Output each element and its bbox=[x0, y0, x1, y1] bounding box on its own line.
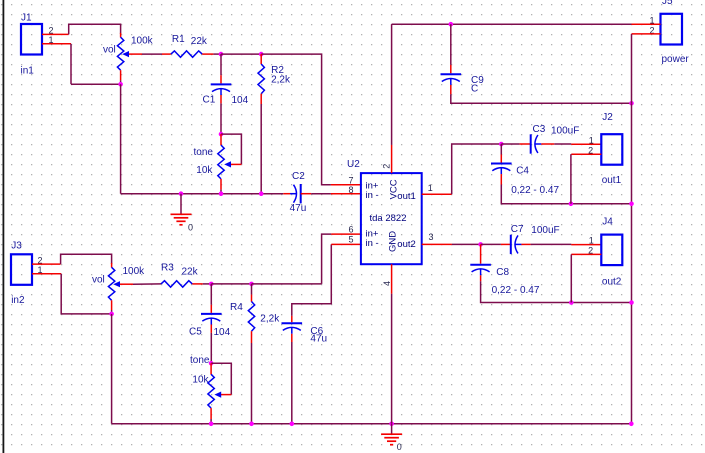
wire ground2 stem bbox=[391, 424, 393, 434]
connector J1 bbox=[21, 24, 42, 55]
svg-text:vol: vol bbox=[92, 275, 105, 286]
svg-text:tone: tone bbox=[190, 355, 210, 366]
wire R1 to node A bbox=[213, 53, 221, 55]
capacitor C4 bbox=[491, 163, 512, 165]
capacitor C8 bbox=[470, 264, 491, 266]
connector J3 bbox=[11, 254, 32, 284]
svg-text:100uF: 100uF bbox=[551, 126, 579, 137]
capacitor C5 bottom stub bbox=[210, 325, 212, 333]
capacitor C7 left stub bbox=[501, 243, 511, 245]
ground symbol 0 (channel 1) bbox=[171, 213, 192, 215]
svg-text:C4: C4 bbox=[516, 166, 529, 177]
J3 pin 2 stub bbox=[32, 263, 61, 265]
resistor R4 bottom stub bbox=[251, 331, 253, 343]
node junction vol1 bottom bbox=[118, 82, 123, 87]
svg-text:C5: C5 bbox=[189, 327, 202, 338]
potentiometer tone1 bbox=[218, 145, 224, 179]
wire node A to R2 top bbox=[221, 53, 261, 55]
node junction bus to ground rail bbox=[629, 422, 634, 427]
node junction R4 bottom bbox=[249, 422, 254, 427]
wire C7 to J4 pin1 bbox=[531, 243, 572, 245]
svg-text:in -: in - bbox=[366, 238, 379, 249]
capacitor C5 bbox=[201, 313, 222, 315]
svg-text:C3: C3 bbox=[533, 124, 546, 135]
connector J4 bbox=[601, 235, 622, 266]
potentiometer vol1 top stub bbox=[120, 33, 122, 38]
svg-text:7: 7 bbox=[348, 175, 353, 185]
svg-text:1: 1 bbox=[589, 135, 594, 145]
potentiometer tone2 top stub bbox=[210, 363, 212, 374]
resistor R1 left stub bbox=[162, 53, 171, 55]
tone2 wiper stub bbox=[221, 394, 231, 396]
potentiometer vol1 bottom stub bbox=[120, 70, 122, 80]
connector J5 bbox=[661, 14, 683, 45]
node junction ground1 bbox=[179, 191, 184, 196]
node junction C4 top bbox=[499, 142, 504, 147]
wire C6 down to bottom rail bbox=[291, 342, 293, 424]
capacitor C1 bottom stub bbox=[220, 95, 222, 103]
wire C8 bottom to out2 return rail bbox=[481, 281, 632, 302]
svg-text:tda 2822: tda 2822 bbox=[370, 213, 407, 224]
wire C9 bottom to power return bbox=[451, 94, 632, 103]
capacitor C6 top stub bbox=[291, 316, 293, 322]
svg-text:U2: U2 bbox=[347, 159, 360, 170]
U2 pin 4 stub bbox=[391, 264, 393, 294]
U2 pin 2 stub bbox=[391, 145, 393, 173]
capacitor C4 top stub bbox=[500, 155, 502, 163]
J5 pin 2 stub bbox=[632, 33, 661, 35]
svg-text:0: 0 bbox=[188, 223, 193, 233]
node junction C8 top bbox=[478, 242, 483, 247]
node junction tone1 bottom bbox=[219, 191, 224, 196]
svg-text:2,2k: 2,2k bbox=[271, 74, 291, 85]
svg-text:out1: out1 bbox=[602, 175, 622, 186]
capacitor C8 top stub bbox=[480, 244, 482, 263]
svg-text:3: 3 bbox=[429, 232, 434, 242]
node junction tone2 top bbox=[209, 361, 214, 366]
svg-text:8: 8 bbox=[348, 185, 353, 195]
node junction U2 pin4 ground bbox=[389, 422, 394, 427]
node junction R2 top bbox=[259, 52, 264, 57]
svg-text:10k: 10k bbox=[196, 165, 213, 176]
wire vol1 junction down to ground rail bbox=[120, 84, 122, 194]
wire R4 top to in+ corner bbox=[252, 283, 322, 285]
svg-text:47u: 47u bbox=[310, 334, 327, 345]
svg-text:0,22 - 0.47: 0,22 - 0.47 bbox=[511, 185, 559, 196]
node junction J2 pin2 return bbox=[569, 202, 574, 207]
wire node B down to C5 bbox=[210, 284, 212, 305]
capacitor C8 bottom stub bbox=[480, 275, 482, 281]
wire vol1 wiper to R1 bbox=[142, 53, 162, 55]
capacitor C9 top stub bbox=[450, 65, 452, 73]
svg-text:R1: R1 bbox=[172, 34, 185, 45]
page border line bbox=[3, 0, 5, 453]
node junction out1 return to bus bbox=[629, 202, 634, 207]
potentiometer tone2 bottom stub bbox=[210, 408, 212, 419]
U2 pin 1 stub bbox=[422, 193, 452, 195]
resistor R2 bottom stub bbox=[260, 94, 262, 104]
wire J3 pin1 down bbox=[61, 274, 111, 314]
svg-text:C2: C2 bbox=[292, 171, 305, 182]
connector J2 bbox=[601, 134, 622, 165]
wire tone1 bottom bbox=[220, 190, 222, 194]
svg-text:J1: J1 bbox=[21, 13, 32, 24]
svg-text:out1: out1 bbox=[397, 191, 416, 202]
node junction tone1 top bbox=[219, 132, 224, 137]
svg-text:C: C bbox=[471, 84, 478, 95]
wire vol2 wiper to R3 bbox=[133, 283, 161, 285]
capacitor C7 bbox=[510, 235, 512, 254]
wire vol2 junction down to bottom rail bbox=[111, 314, 113, 424]
wire C4 junction to C3 bbox=[501, 143, 519, 145]
svg-text:J3: J3 bbox=[11, 241, 22, 252]
wire tone2 bottom bbox=[210, 419, 212, 424]
svg-text:out2: out2 bbox=[397, 239, 416, 250]
wire tone2 wiper loop bbox=[211, 363, 231, 394]
capacitor C6 bbox=[282, 322, 303, 324]
op-amp U2 tda2822 body bbox=[361, 173, 422, 264]
resistor R2 top stub bbox=[260, 54, 262, 64]
svg-text:1: 1 bbox=[589, 235, 594, 245]
wire C8 junction to C7 bbox=[481, 243, 501, 245]
node junction power return bbox=[629, 101, 634, 106]
wire J1 pin1 down bbox=[70, 44, 72, 84]
wire C1 to tone1 junction bbox=[220, 103, 222, 134]
U2 pin 8 stub bbox=[331, 193, 361, 195]
bottom ground rail bbox=[112, 423, 632, 425]
resistor R1 bbox=[171, 51, 202, 57]
J5 pin 1 stub bbox=[632, 23, 661, 25]
svg-text:in1: in1 bbox=[21, 66, 35, 77]
wire U2 pin5 to C6 bbox=[292, 244, 332, 316]
wire J4 pin2 down bbox=[570, 254, 572, 302]
resistor R2 bbox=[258, 64, 264, 94]
wire node A down to C1 bbox=[220, 54, 222, 75]
capacitor C1 bbox=[211, 83, 232, 85]
ground symbol 0 (main) bbox=[381, 433, 402, 435]
node junction vol2 bottom bbox=[109, 312, 114, 317]
wire vol2 bottom to junction bbox=[111, 310, 113, 314]
svg-text:22k: 22k bbox=[182, 267, 199, 278]
wire C9 top bbox=[450, 24, 452, 65]
U2 pin 6 stub bbox=[331, 233, 361, 235]
capacitor C7 right stub bbox=[521, 243, 530, 245]
wire out2 to C7 bbox=[452, 243, 481, 245]
node junction tone2 bottom bbox=[209, 422, 214, 427]
wire C4 down bbox=[500, 144, 502, 155]
ground rail channel 1 bbox=[121, 193, 284, 195]
svg-text:out2: out2 bbox=[602, 276, 622, 287]
capacitor C3 right stub bbox=[541, 143, 554, 145]
wire in+ riser ch2 bbox=[322, 234, 332, 284]
J2 pin 1 stub bbox=[571, 143, 601, 145]
svg-text:4: 4 bbox=[382, 281, 392, 286]
potentiometer vol1 wiper arrow bbox=[122, 51, 129, 57]
wire C4 bottom to out1 return rail bbox=[501, 185, 631, 204]
potentiometer tone1 bottom stub bbox=[220, 179, 222, 190]
node junction J4 pin2 return bbox=[569, 300, 574, 305]
wire R4 bottom to bottom rail bbox=[251, 343, 253, 424]
svg-text:0,22 - 0.47: 0,22 - 0.47 bbox=[492, 285, 540, 296]
svg-text:R4: R4 bbox=[230, 302, 243, 313]
wire vol1 bottom to junction bbox=[120, 80, 122, 84]
wire U2 pin4 to ground rail bbox=[391, 294, 393, 424]
resistor R3 bbox=[161, 281, 192, 287]
capacitor C2 bbox=[300, 184, 302, 203]
svg-text:104: 104 bbox=[214, 327, 231, 338]
J2 pin 2 stub bbox=[571, 153, 601, 155]
svg-text:J5: J5 bbox=[662, 0, 673, 7]
svg-text:in2: in2 bbox=[11, 295, 25, 306]
wire R2 bottom to ground rail bbox=[260, 104, 262, 194]
capacitor C2 left stub bbox=[283, 193, 290, 195]
potentiometer vol2 top stub bbox=[111, 263, 113, 268]
svg-text:tone: tone bbox=[194, 147, 214, 158]
J1 pin 2 stub bbox=[42, 33, 69, 35]
J4 pin 1 stub bbox=[571, 244, 601, 246]
wire R3 to node B bbox=[203, 283, 212, 285]
svg-text:47u: 47u bbox=[290, 203, 307, 214]
potentiometer vol2 bottom stub bbox=[111, 300, 113, 310]
wire C5 to tone2 junction bbox=[210, 333, 212, 363]
J3 pin 1 stub bbox=[32, 273, 61, 275]
capacitor C4 bottom stub bbox=[500, 174, 502, 184]
potentiometer tone1 top stub bbox=[220, 134, 222, 145]
svg-text:in -: in - bbox=[366, 190, 379, 201]
tone1 wiper stub bbox=[231, 163, 242, 165]
potentiometer tone1 wiper arrow bbox=[224, 161, 231, 167]
svg-text:vol: vol bbox=[103, 45, 116, 56]
capacitor C3 bbox=[530, 134, 532, 153]
svg-text:1: 1 bbox=[428, 183, 433, 193]
svg-text:C7: C7 bbox=[511, 224, 524, 235]
svg-text:C1: C1 bbox=[203, 95, 216, 106]
svg-text:22k: 22k bbox=[191, 36, 208, 47]
wire R2 top to in+ corner bbox=[261, 54, 331, 185]
resistor R4 top stub bbox=[251, 295, 253, 302]
wire C3 to J2 pin1 bbox=[554, 143, 571, 145]
svg-text:C8: C8 bbox=[496, 267, 509, 278]
svg-text:J2: J2 bbox=[602, 112, 613, 123]
svg-text:104: 104 bbox=[232, 95, 249, 106]
node junction C9 top bbox=[449, 22, 454, 27]
svg-text:5: 5 bbox=[348, 234, 353, 244]
svg-text:100uF: 100uF bbox=[531, 225, 559, 236]
node junction out2 return to bus bbox=[629, 300, 634, 305]
wire J3 pin2 to vol2 top bbox=[61, 254, 112, 264]
capacitor C2 right stub bbox=[301, 193, 312, 195]
svg-text:100k: 100k bbox=[131, 36, 154, 47]
U2 pin 7 stub bbox=[331, 184, 361, 186]
power rail +V bbox=[392, 23, 632, 25]
wire J1 pin1 to vol1 bottom junction bbox=[71, 83, 121, 85]
node junction R4 top bbox=[249, 282, 254, 287]
wire tone1 wiper loop bbox=[221, 134, 241, 164]
node B junction (R3/C5) bbox=[209, 282, 214, 287]
node junction R2 bottom bbox=[259, 191, 264, 196]
resistor R1 right stub bbox=[202, 53, 213, 55]
svg-text:power: power bbox=[662, 54, 690, 65]
wire J2 pin2 down bbox=[570, 154, 572, 204]
capacitor C6 bottom stub bbox=[291, 334, 293, 342]
U2 pin 5 stub bbox=[331, 243, 361, 245]
wire J1 pin2 to vol1 top bbox=[69, 24, 121, 34]
svg-text:10k: 10k bbox=[192, 375, 209, 386]
svg-text:6: 6 bbox=[348, 225, 353, 235]
capacitor C3 left stub bbox=[520, 143, 531, 145]
wire node B to R4 top bbox=[211, 283, 251, 285]
resistor R3 right stub bbox=[192, 283, 203, 285]
svg-text:R3: R3 bbox=[161, 262, 174, 273]
potentiometer vol1 bbox=[117, 37, 123, 70]
wire R4 top stub upper bbox=[251, 284, 253, 295]
resistor R4 bbox=[248, 302, 254, 332]
wire out1 riser bbox=[452, 144, 502, 194]
node junction C6 bottom bbox=[290, 422, 295, 427]
wire J5 pin2 down bbox=[631, 34, 633, 103]
wire right vertical bus bbox=[631, 103, 633, 424]
U2 pin 3 stub bbox=[422, 243, 452, 245]
wire ground1 stem bbox=[180, 194, 182, 214]
potentiometer tone2 wiper arrow bbox=[214, 392, 221, 398]
potentiometer vol2 bbox=[108, 267, 114, 300]
capacitor C9 bbox=[441, 73, 462, 75]
wire C2 to U2 pin 8 bbox=[311, 193, 331, 195]
node A junction (R1/C1) bbox=[219, 52, 224, 57]
capacitor C5 top stub bbox=[210, 305, 212, 313]
capacitor C1 top stub bbox=[220, 75, 222, 83]
svg-text:J4: J4 bbox=[602, 216, 613, 227]
svg-text:0: 0 bbox=[397, 442, 402, 452]
potentiometer vol2 wiper arrow bbox=[113, 281, 120, 287]
svg-text:100k: 100k bbox=[123, 266, 146, 277]
svg-text:2,2k: 2,2k bbox=[260, 314, 280, 325]
J1 pin 1 stub bbox=[42, 43, 71, 45]
svg-text:2: 2 bbox=[382, 164, 392, 169]
capacitor C9 bottom stub bbox=[450, 85, 452, 94]
J4 pin 2 stub bbox=[571, 253, 601, 255]
wire VCC riser bbox=[391, 24, 393, 145]
potentiometer tone2 bbox=[208, 374, 214, 408]
